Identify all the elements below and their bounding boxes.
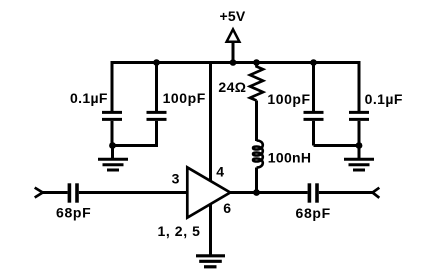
svg-text:24Ω: 24Ω [218,79,246,95]
wire: right bypass bottom [314,144,360,147]
wire: 68pF to op-amp pin 3 [79,191,188,194]
node: rail / 100pF left junction [153,59,160,66]
wire: op-amp pins 1,2,5 to ground [209,204,212,255]
wire: +5V rail [112,61,359,64]
svg-text:+5V: +5V [220,8,246,24]
svg-text:0.1µF: 0.1µF [365,91,403,107]
wire: rail to op-amp pin 4 [209,63,212,182]
output connector chevron [373,188,380,198]
ground (op-amp) [196,256,225,267]
svg-text:100pF: 100pF [163,90,206,106]
input connector chevron [35,188,43,198]
node: rail / 24ohm junction [253,59,260,66]
resistor 24ohm [250,63,263,142]
capacitor 68pF input [69,183,77,202]
svg-text:68pF: 68pF [56,204,91,220]
node: output junction [253,189,260,196]
wire: 68pF to output connector [319,191,373,194]
svg-text:1, 2, 5: 1, 2, 5 [157,223,200,239]
inductor 100nH [253,141,263,193]
svg-text:100nH: 100nH [268,150,312,166]
svg-text:0.1µF: 0.1µF [70,90,108,106]
wire: op-amp output to node [229,191,258,194]
node: right ground junction [356,142,363,149]
ground (right bypass) [344,146,374,171]
capacitor 68pF output [309,183,317,202]
svg-text:68pF: 68pF [295,205,330,221]
ground (left bypass) [98,146,128,171]
capacitor 0.1uF left [102,61,122,147]
node: left ground junction [109,142,116,149]
node: rail / 100pF right junction [310,59,317,66]
capacitor 100pF right [304,63,324,146]
+5V power symbol [227,29,240,62]
node: rail / +5V junction [230,59,237,66]
svg-text:3: 3 [172,171,180,187]
svg-text:6: 6 [223,200,231,216]
wire: output node to 68pF [257,191,308,194]
svg-text:100pF: 100pF [267,91,310,107]
capacitor 0.1uF right [349,61,369,147]
wire: left bypass bottom [112,144,158,147]
wire: input to 68pF [43,191,68,194]
capacitor 100pF left [147,63,167,146]
svg-text:4: 4 [216,164,224,180]
op-amp buffer triangle [187,167,230,217]
